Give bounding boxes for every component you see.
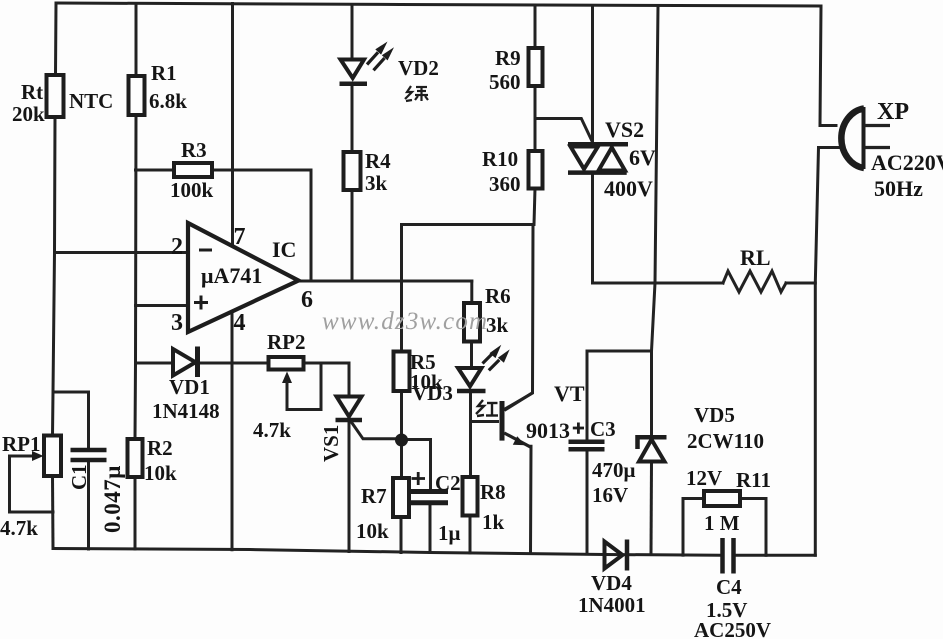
wire VS1 anode [348,363,351,396]
svg-text:R11: R11 [736,468,771,492]
wire R9 to R10 [534,86,537,151]
wire RL row left [593,282,724,285]
potentiometer RP2 body [269,357,304,370]
wire left rail mid [53,117,56,436]
svg-text:μA741: μA741 [201,263,262,288]
svg-text:12V: 12V [686,466,722,490]
wire R6 to VD3 [470,342,473,368]
wire RL row right [786,282,815,285]
zener diode VD5 [638,437,667,461]
svg-text:2: 2 [171,234,183,260]
svg-text:4.7k: 4.7k [253,418,291,442]
label green char [405,86,428,101]
svg-text:1N4148: 1N4148 [152,399,220,423]
svg-text:NTC: NTC [69,89,113,113]
svg-text:470μ: 470μ [592,458,636,482]
wire RP1 wiper loop [10,456,54,512]
svg-text:RP1: RP1 [2,432,41,456]
svg-text:1μ: 1μ [438,521,461,545]
svg-text:9013: 9013 [526,418,570,443]
svg-text:R6: R6 [485,284,511,308]
svg-text:C3: C3 [590,417,616,441]
wire VS2 top [591,6,594,142]
svg-text:10k: 10k [144,461,177,485]
capacitor C4 [723,538,734,574]
svg-text:3k: 3k [486,313,509,337]
svg-text:1 M: 1 M [704,511,740,535]
svg-text:1N4001: 1N4001 [578,593,646,617]
svg-text:7: 7 [234,224,246,250]
wire R9 top [534,6,537,48]
wire VD3 to R8 [469,393,472,478]
svg-text:6V: 6V [629,145,656,170]
wire right rail lower [815,148,818,556]
svg-text:VD2: VD2 [398,56,439,80]
resistor R11 [704,491,740,506]
svg-text:0.047μ: 0.047μ [100,465,125,533]
resistor R10 [529,151,543,189]
svg-text:VD5: VD5 [694,403,735,427]
svg-text:RP2: RP2 [267,330,306,354]
wire RP2 right row [304,362,350,365]
plug XP [841,107,890,169]
svg-text:VD1: VD1 [169,375,210,399]
svg-text:4.7k: 4.7k [0,516,38,540]
op-amp plus sign [194,296,208,310]
wire feedback [310,170,313,281]
wire R8 bottom [469,516,472,554]
resistor R9 [529,48,543,86]
svg-text:20k: 20k [12,102,45,126]
svg-text:VD3: VD3 [412,381,453,405]
svg-text:VS1: VS1 [319,425,343,462]
svg-text:AC220V: AC220V [871,150,943,175]
svg-text:6: 6 [301,287,313,313]
svg-text:R4: R4 [365,149,391,173]
wire top rail [56,3,821,6]
resistor RL zigzag [723,271,786,292]
resistor Rt [47,75,64,117]
svg-text:www.dz3w.com: www.dz3w.com [322,308,488,335]
wire collector [504,225,533,410]
svg-text:VS2: VS2 [605,117,644,142]
wire R10 bottom [534,189,535,225]
svg-text:100k: 100k [170,178,214,202]
svg-text:R3: R3 [181,138,207,162]
svg-text:Rt: Rt [21,80,43,104]
capacitor C3 [569,423,605,450]
LED VD2 [340,42,395,84]
svg-text:R9: R9 [495,46,521,70]
wire R1 top [135,4,138,77]
label red char [476,400,498,416]
wire XP top lead [820,124,836,127]
svg-text:1k: 1k [482,510,505,534]
op-amp U1 μA741 triangle [188,223,299,332]
wire right rail upper [820,6,821,126]
wire dot to R7 [400,440,403,478]
svg-text:RL: RL [740,245,771,270]
svg-text:VT: VT [554,381,585,406]
wire C3 bottom [586,452,589,554]
triac VS2 [568,144,628,172]
wire VD2 to R4 [351,86,354,152]
wire pin2 row [55,251,189,254]
diode VD4 [605,540,628,571]
wire VS2 gate row [536,119,592,141]
wire VD5 bottom [650,462,654,555]
wire supply drop [652,6,659,437]
wire R2 bottom [134,477,137,549]
wire VD1 row right [199,362,269,365]
svg-text:C1: C1 [67,464,91,490]
wire output row [299,280,472,283]
wire R11 row left [683,497,704,500]
wire R5 top [400,225,403,352]
svg-text:3k: 3k [365,171,388,195]
wire VS1 cathode [348,422,351,552]
wire pin3 row [136,304,189,307]
wire R3 right [212,169,311,172]
svg-text:400V: 400V [604,176,653,201]
svg-text:R1: R1 [151,61,177,85]
wire RP2 wiper loop [287,363,321,410]
wire base row [471,420,498,423]
wire pin7 [231,4,234,246]
resistor R8 [463,477,478,516]
wire VD1 row left [136,362,174,365]
svg-text:360: 360 [489,172,521,196]
svg-text:4: 4 [234,310,246,336]
wire C2 bottom [429,506,432,553]
wire R11 left leg [682,499,685,556]
wire pin4 [231,312,234,550]
wire R7 bottom [400,517,403,553]
transistor VT emitter diagonal [504,433,531,447]
wire C1 bottom [87,462,90,549]
wire R10 collector row [402,223,534,226]
resistor R7 [393,478,409,517]
resistor R3 [174,163,212,177]
wire left rail upper [54,3,58,75]
resistor R1 [129,76,145,115]
wire R11 right leg [765,499,768,556]
wire RP1 wiper stem [10,455,37,458]
resistor R2 [128,439,143,477]
wire R6 top [470,281,473,303]
svg-text:16V: 16V [592,483,628,507]
svg-text:R7: R7 [361,484,387,508]
transistor VT base bar [500,401,505,441]
wire bottom rail left [53,549,720,556]
wire C3 top rail [587,350,652,353]
op-amp minus sign [199,249,212,252]
thyristor VS1 [336,397,402,439]
capacitor C1 [71,450,107,460]
potentiometer RP2 wiper arrow [282,372,292,410]
LED VD3 [457,345,510,391]
wire C3 top [586,351,589,440]
resistor R6 [464,303,480,342]
svg-text:IC: IC [272,237,296,262]
svg-text:VD4: VD4 [591,571,632,595]
svg-text:2CW110: 2CW110 [687,429,764,453]
resistor R5 [394,352,410,392]
wire R4 bottom [351,190,354,281]
svg-text:XP: XP [877,99,909,125]
svg-text:C4: C4 [716,575,742,599]
wire bottom rail right [737,554,816,557]
svg-text:50Hz: 50Hz [874,176,923,201]
capacitor C2 [411,472,448,503]
wire XP bottom lead [819,146,840,149]
wire C1 branch [53,392,89,448]
wire R1 to R2 [135,115,136,439]
node junction dot [395,434,408,447]
transistor VT collector diagonal [504,393,532,411]
wire R3 left [136,169,175,172]
svg-text:R8: R8 [480,480,506,504]
potentiometer RP1 body [44,436,61,477]
wire R5 bottom to dot [400,391,403,440]
wire C2 top row [402,440,431,490]
wire emitter lower [529,446,533,553]
wire VS2 bottom [591,175,594,283]
svg-text:AC250V: AC250V [694,618,771,639]
svg-text:C2: C2 [435,471,461,495]
svg-text:3: 3 [171,310,183,336]
svg-text:10k: 10k [356,519,389,543]
svg-text:560: 560 [489,70,521,94]
wire left rail lower [51,476,55,549]
wire R11 row right [740,497,766,500]
svg-text:R2: R2 [147,436,173,460]
svg-text:R10: R10 [482,147,518,171]
potentiometer RP1 wiper arrow [32,451,44,461]
wire VD2 top [351,5,354,60]
diode VD1 [173,347,198,378]
svg-text:6.8k: 6.8k [149,89,187,113]
resistor R4 [344,152,361,190]
